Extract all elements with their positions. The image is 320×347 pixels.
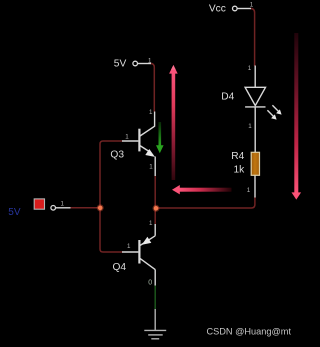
svg-text:1k: 1k xyxy=(234,165,246,176)
svg-text:CSDN @Huang@mt: CSDN @Huang@mt xyxy=(207,326,292,336)
svg-text:1: 1 xyxy=(247,187,251,194)
svg-text:Q3: Q3 xyxy=(110,150,124,161)
svg-text:1: 1 xyxy=(248,65,252,72)
svg-text:1: 1 xyxy=(149,109,153,116)
svg-text:0: 0 xyxy=(148,279,152,286)
svg-text:1: 1 xyxy=(250,2,254,9)
svg-text:1: 1 xyxy=(149,220,153,227)
svg-text:1: 1 xyxy=(149,163,153,170)
svg-text:R4: R4 xyxy=(231,151,244,162)
svg-text:Vcc: Vcc xyxy=(209,4,226,15)
svg-text:5V: 5V xyxy=(8,207,21,218)
svg-text:Q4: Q4 xyxy=(113,262,127,273)
svg-text:1: 1 xyxy=(127,243,131,250)
svg-text:D4: D4 xyxy=(221,91,234,102)
svg-text:1: 1 xyxy=(61,201,65,208)
svg-text:1: 1 xyxy=(248,123,252,130)
svg-text:5V: 5V xyxy=(114,58,127,69)
svg-text:1: 1 xyxy=(148,57,152,64)
svg-text:1: 1 xyxy=(125,133,129,140)
